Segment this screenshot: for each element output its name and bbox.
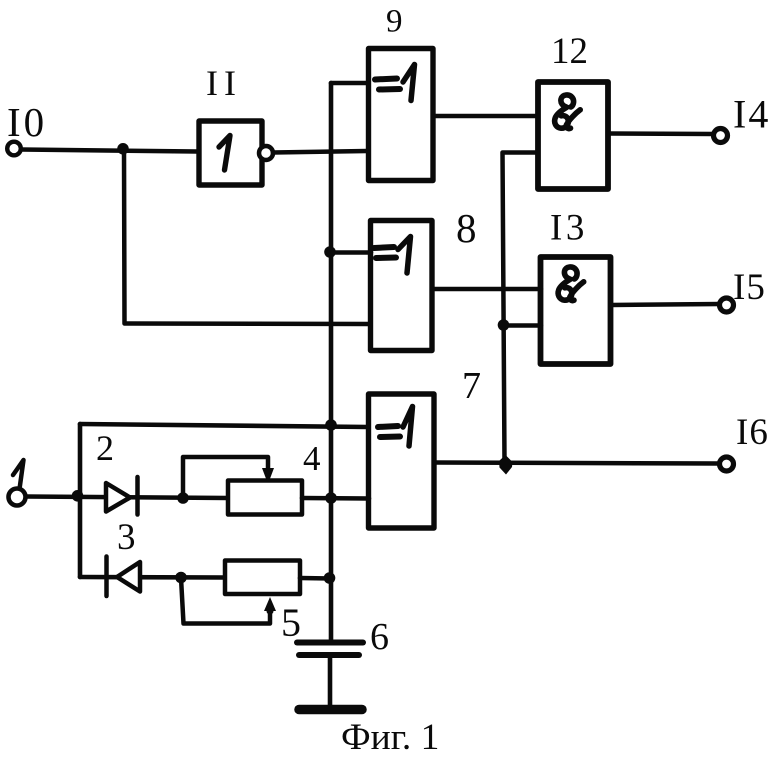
gate 8 symbol =1 xyxy=(374,237,411,274)
AND gate 12 box xyxy=(538,82,608,189)
svg-text:I4: I4 xyxy=(733,92,770,137)
inverter U11 symbol 1 xyxy=(219,136,230,171)
wire input 10 to inverter 11 xyxy=(21,150,197,152)
junction bus on top branch xyxy=(325,419,337,431)
XOR gate 9 box xyxy=(369,49,434,181)
terminal input 1 xyxy=(9,489,26,506)
junction bus to gate 8 upper input xyxy=(324,246,336,258)
XOR gate 8 box xyxy=(371,221,433,351)
junction node on input 10 wire xyxy=(117,143,129,155)
wire gate 8 output to gate 13 xyxy=(432,287,541,292)
potentiometer 4 wiper loop xyxy=(183,457,268,497)
wire diode 3 row xyxy=(80,575,225,580)
gate 7 symbol =1 xyxy=(378,407,413,447)
wire bus to gate 9 upper input xyxy=(331,81,368,86)
svg-text:2: 2 xyxy=(96,428,114,468)
wire resistor 5 to bus xyxy=(300,576,331,581)
svg-text:7: 7 xyxy=(462,365,481,407)
junction to gate 13 lower input xyxy=(498,319,510,331)
capacitor C6 bottom plate xyxy=(299,652,359,658)
junction bus resistor 5 xyxy=(324,572,336,584)
junction before resistor 5 xyxy=(175,572,187,584)
gate 9 symbol =1 xyxy=(375,65,415,101)
capacitor C6 top plate xyxy=(297,640,363,646)
svg-text:I0: I0 xyxy=(7,99,47,145)
potentiometer 5 arrow base dot xyxy=(267,608,274,615)
wire inverter 11 output to gate 9 lower input xyxy=(273,151,367,153)
resistor R4 xyxy=(228,481,302,515)
potentiometer 4 arrow xyxy=(262,468,274,484)
svg-text:6: 6 xyxy=(370,616,389,658)
svg-text:4: 4 xyxy=(303,439,321,478)
junction arrow on gate 7 output xyxy=(499,455,513,475)
junction bus resistor 4 xyxy=(325,492,337,504)
wire capacitor to ground xyxy=(328,657,333,707)
gate 13 symbol & xyxy=(558,267,584,301)
ground symbol xyxy=(299,705,362,715)
wire top branch to gate 7 upper input xyxy=(80,424,368,427)
terminal output 14 xyxy=(714,129,728,143)
svg-text:Фиг. 1: Фиг. 1 xyxy=(341,717,439,758)
diode D2 xyxy=(106,477,138,515)
wire gate 7 output to terminal 16 xyxy=(434,463,719,464)
wire gate 13 output to terminal 15 xyxy=(611,304,720,305)
XOR gate 7 box xyxy=(369,394,435,528)
svg-text:I3: I3 xyxy=(550,208,588,249)
wire gate 12 lower input from vertical line xyxy=(503,153,539,462)
wire bus to gate 8 upper input xyxy=(330,250,371,255)
svg-text:8: 8 xyxy=(456,205,477,251)
inverter U11 box xyxy=(199,121,262,185)
terminal input 10 xyxy=(7,142,21,156)
terminal output 15 xyxy=(720,298,734,312)
wire input 1 xyxy=(26,497,228,499)
gate 12 symbol & xyxy=(555,95,581,129)
junction on wire 1 xyxy=(72,490,84,502)
svg-text:5: 5 xyxy=(281,600,301,645)
svg-text:I5: I5 xyxy=(733,267,766,308)
potentiometer 5 arrow xyxy=(264,597,276,611)
diode D3 xyxy=(107,557,141,597)
potentiometer 5 wiper loop xyxy=(181,578,270,624)
svg-text:9: 9 xyxy=(386,4,403,40)
main vertical bus xyxy=(329,83,334,641)
wire gate 9 output to gate 12 xyxy=(433,114,538,119)
AND gate 13 box xyxy=(541,257,611,364)
svg-text:II: II xyxy=(206,63,242,103)
wire from node down to element 8 lower input xyxy=(124,149,370,324)
svg-text:I6: I6 xyxy=(736,412,769,453)
junction before resistor 4 xyxy=(177,492,189,504)
wire to gate 13 lower input xyxy=(504,323,542,328)
left vertical branch xyxy=(78,424,83,577)
svg-text:12: 12 xyxy=(551,31,588,72)
terminal output 16 xyxy=(720,457,734,471)
node 1 label handwritten xyxy=(13,460,24,489)
svg-text:3: 3 xyxy=(117,517,136,558)
inverter U11 output bubble xyxy=(259,146,273,160)
wire resistor 4 to gate 7 lower input xyxy=(302,496,369,501)
resistor R5 xyxy=(225,561,300,595)
wire gate 12 output to terminal 14 xyxy=(608,131,713,136)
